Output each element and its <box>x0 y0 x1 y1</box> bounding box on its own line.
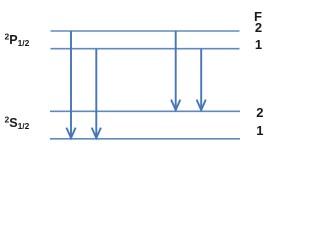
level line 2S1/2 F=2 <box>50 110 240 112</box>
svg-text:2: 2 <box>255 20 262 35</box>
transition arrow F'=2 to F=2 <box>171 31 180 110</box>
svg-text:2: 2 <box>256 105 263 120</box>
svg-text:1: 1 <box>255 37 262 52</box>
svg-text:1: 1 <box>256 123 263 138</box>
transition arrow F'=2 to F=1 <box>66 31 75 138</box>
level line 2S1/2 F=1 <box>50 138 240 140</box>
level line 2P1/2 F=1 <box>51 48 240 50</box>
svg-text:2S1/2: 2S1/2 <box>5 115 30 132</box>
transition arrow F'=1 to F=2 <box>197 49 206 110</box>
svg-text:2P1/2: 2P1/2 <box>5 32 30 49</box>
level line 2P1/2 F=2 <box>51 30 240 32</box>
transition arrow F'=1 to F=1 <box>92 49 101 138</box>
